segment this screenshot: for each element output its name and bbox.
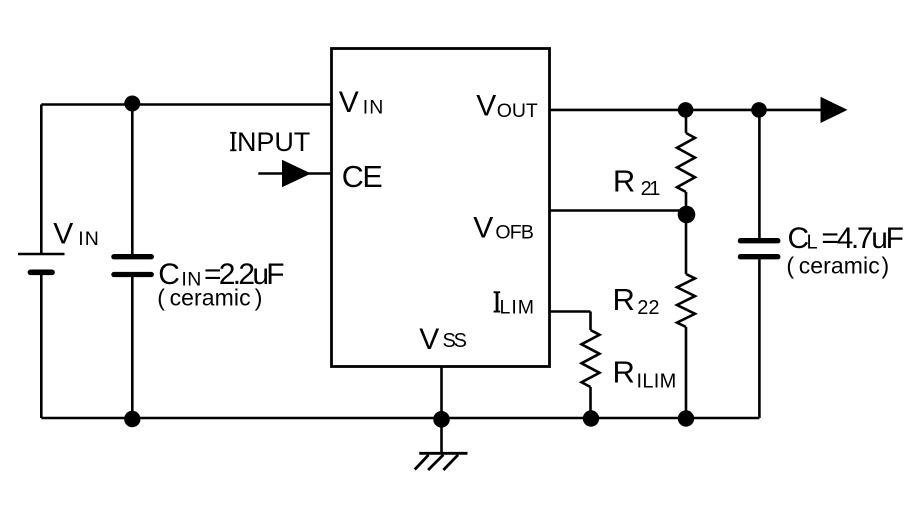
svg-text:(: ( [157,285,165,311]
capacitor CL bottom plate [740,254,777,259]
IC box U1 [332,49,550,367]
wire R21 top stub [685,110,688,133]
wire VSS vertical [440,367,443,454]
wire R22 bottom [685,327,688,418]
capacitor CIN top plate [114,254,151,259]
node dot VOFB/R21/R22 [678,206,696,224]
svg-text:22: 22 [637,297,659,319]
svg-text:R: R [613,355,635,390]
resistor R21 zigzag [677,133,695,192]
svg-text:SS: SS [443,330,468,352]
svg-text:LIM: LIM [500,297,535,319]
wire CIN top [131,105,134,257]
battery V1 top plate [18,253,65,256]
wire VOUT horizontal [550,109,822,112]
svg-text:): ) [882,252,890,278]
wire left vertical above battery [40,105,43,255]
svg-text:V: V [476,90,496,123]
wire left vertical below battery [40,272,43,418]
svg-text:(: ( [786,252,794,278]
node dot RILIM bottom [583,410,599,426]
svg-text:IN: IN [363,96,384,118]
svg-text:R: R [613,163,635,198]
node dot VOUT/R21 [678,102,694,118]
resistor RILIM zigzag [582,330,600,387]
node dot VSS ground [433,411,450,428]
ground hash 2 [428,455,443,470]
wire ILIM horizontal [550,310,591,313]
ground hash 1 [415,455,429,470]
svg-text:OFB: OFB [495,221,534,243]
CE input arrowhead [282,160,311,187]
wire RILIM bottom [589,387,592,418]
svg-text:R: R [613,282,635,317]
wire top-left horizontal (VIN net) [41,103,331,106]
svg-text:L: L [807,232,818,254]
node dot CIN top [124,96,140,112]
capacitor CL top plate [740,238,777,243]
battery V1 bottom plate [31,269,53,275]
ground hash 3 [443,455,458,470]
svg-text:): ) [255,285,263,311]
capacitor CIN bottom plate [114,272,151,277]
svg-text:OUT: OUT [497,100,538,122]
svg-text:CE: CE [342,160,383,194]
ground bar [419,452,467,455]
wire CE to box [308,172,332,175]
svg-text:21: 21 [641,178,661,200]
svg-text:ceramic: ceramic [799,252,880,278]
svg-text:IN: IN [78,228,99,250]
wire ILIM vertical [589,312,592,331]
svg-text:=4.7uF: =4.7uF [821,222,904,255]
node dot CL top [751,102,767,118]
wire CE input tail [258,172,284,175]
wire CL top [758,110,761,238]
svg-text:V: V [53,218,73,251]
node dot CIN bottom [124,411,140,427]
svg-text:V: V [419,323,439,356]
svg-text:ILIM: ILIM [637,371,677,393]
wire R21 bottom stub [685,192,688,215]
resistor R22 zigzag [677,274,695,327]
svg-text:INPUT: INPUT [230,127,311,157]
svg-text:V: V [473,212,493,245]
wire bottom horizontal (ground net) [41,417,759,420]
svg-text:ceramic: ceramic [170,285,251,311]
svg-text:V: V [339,86,359,119]
wire CL bottom [758,259,761,418]
wire CIN bottom [131,275,134,419]
wire VOFB horizontal [550,209,687,212]
output arrowhead [821,97,848,123]
node dot R22 bottom [678,410,694,426]
wire R22 top [685,211,688,274]
